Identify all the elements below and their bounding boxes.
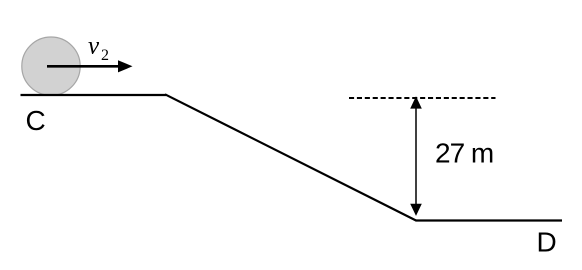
lower surface line: [416, 219, 563, 221]
svg-text:D: D: [537, 227, 557, 258]
slope line: [165, 94, 416, 220]
svg-text:C: C: [26, 105, 46, 136]
velocity arrow v2: [47, 60, 133, 72]
svg-text:2: 2: [101, 47, 109, 64]
height dimension arrow (double-headed): [410, 96, 422, 216]
ball: [22, 37, 80, 95]
svg-text:v: v: [88, 33, 100, 60]
upper surface line: [21, 94, 167, 96]
svg-text:27 m: 27 m: [435, 138, 493, 169]
dashed reference line: [349, 97, 496, 99]
label v2: [88, 33, 109, 64]
